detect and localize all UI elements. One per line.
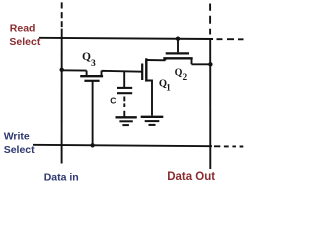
svg-text:Read: Read (10, 23, 36, 35)
wire: Q3 drain stub and wire to Q1 gate (102, 71, 142, 76)
svg-text:Write: Write (4, 130, 30, 142)
wire: capacitor branch stub from storage node (123, 72, 125, 88)
wire: Data Out column dashed top segment (209, 4, 211, 35)
wire: Read Select rail dashed continuation (right) (217, 38, 244, 40)
svg-text:Select: Select (4, 144, 35, 156)
transistor Q2 channel plate (163, 57, 192, 59)
transistor Q1 channel plate (145, 58, 147, 81)
wire: Data in column dashed top segment (61, 2, 63, 27)
svg-text:2: 2 (183, 72, 188, 82)
transistor Q3 gate plate (84, 80, 99, 82)
transistor Q3 channel plate (80, 75, 103, 77)
wire: Read Select horizontal rail (39, 38, 213, 39)
svg-text:Q: Q (82, 51, 91, 63)
wire: Q1 drain to Q2 source (146, 59, 165, 61)
node: junction dot Q3 gate to Write Select rail (90, 143, 94, 147)
wire: Write Select rail dashed continuation (right) (214, 145, 243, 147)
ground (capacitor) (116, 117, 137, 125)
transistor Q2 gate plate (166, 52, 189, 54)
svg-text:Data in: Data in (44, 171, 79, 183)
capacitor C bottom plate (117, 92, 132, 94)
ground (Q1 source) (141, 117, 164, 125)
wire: Q1 source hook down to ground (146, 81, 152, 116)
wire: Data in vertical line (61, 29, 63, 164)
wire: Write Select horizontal rail (33, 145, 212, 146)
transistor Q1 gate plate (141, 64, 143, 81)
wire: dashed line capacitor to ground (123, 97, 125, 117)
wire: Q2 drain stub and wire to Data Out line (192, 59, 211, 64)
node: junction dot Data-in line to Q3 source (60, 68, 64, 72)
capacitor C top plate (117, 87, 132, 89)
wire: Q2 gate stub from Read rail (177, 39, 179, 53)
svg-text:1: 1 (166, 83, 171, 93)
wire: Data Out vertical line (209, 38, 211, 169)
wire: Q3 source wire from Data-in line (62, 70, 87, 76)
svg-text:Data Out: Data Out (167, 171, 215, 183)
node: junction dot Q2 drain to Data Out line (208, 62, 212, 66)
svg-text:Select: Select (9, 36, 40, 48)
svg-text:3: 3 (91, 59, 96, 69)
svg-text:Q: Q (175, 67, 183, 78)
svg-text:C: C (110, 96, 116, 106)
wire: Q3 gate line down to Write Select rail (92, 82, 94, 146)
node: junction dot Read rail to Q2 gate (176, 37, 180, 41)
